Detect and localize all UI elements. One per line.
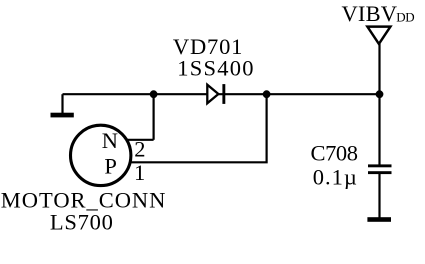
svg-text:0.1µ: 0.1µ xyxy=(313,165,357,190)
svg-text:N: N xyxy=(102,128,118,153)
svg-text:1: 1 xyxy=(134,160,145,185)
svg-text:P: P xyxy=(104,154,117,179)
svg-text:C708: C708 xyxy=(311,141,359,166)
svg-text:VIBV: VIBV xyxy=(342,1,398,26)
svg-text:LS700: LS700 xyxy=(50,210,113,235)
svg-text:DD: DD xyxy=(396,10,414,25)
svg-text:2: 2 xyxy=(134,137,145,162)
